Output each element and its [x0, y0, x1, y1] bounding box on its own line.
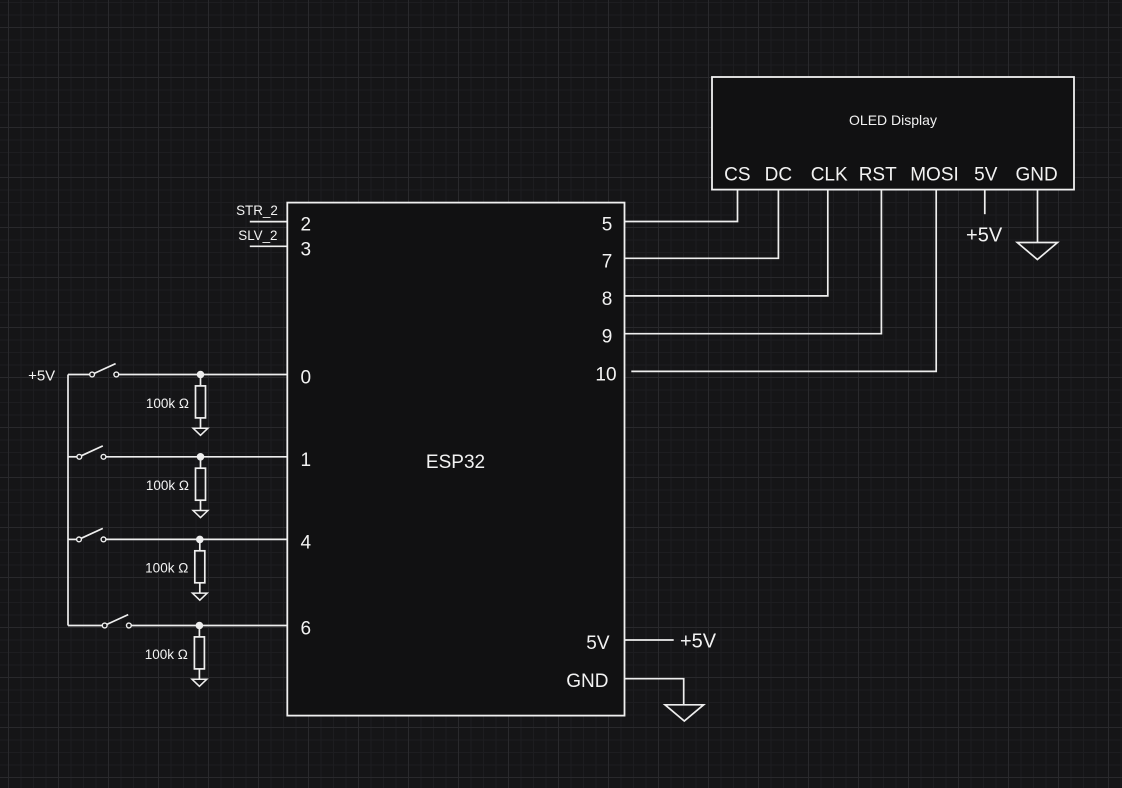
svg-text:100k Ω: 100k Ω — [145, 647, 188, 662]
svg-text:RST: RST — [859, 165, 897, 186]
resistor R2 100k — [196, 457, 206, 511]
wire DC: OLED DC to ESP32 pin 7 — [625, 190, 779, 259]
svg-text:OLED Display: OLED Display — [849, 112, 937, 128]
OLED Display box U1 — [712, 77, 1074, 190]
svg-text:5: 5 — [602, 215, 613, 236]
wire rail to switch SW1 — [68, 374, 90, 376]
ESP32 box U2 — [287, 203, 624, 716]
svg-text:10: 10 — [595, 364, 616, 385]
svg-text:ESP32: ESP32 — [426, 452, 485, 473]
wire SW3 to ESP32 pin 4 — [106, 538, 287, 540]
svg-text:2: 2 — [301, 215, 312, 236]
svg-text:6: 6 — [301, 619, 312, 640]
wire OLED 5V stub — [984, 190, 986, 215]
wire SW4 to ESP32 pin 6 — [131, 625, 287, 627]
svg-text:1: 1 — [301, 450, 312, 471]
wire rail to switch SW2 — [68, 456, 77, 458]
svg-text:4: 4 — [301, 532, 312, 553]
ground symbol (ESP32) — [665, 705, 704, 721]
svg-text:+5V: +5V — [28, 367, 55, 384]
switch SW3 — [77, 528, 106, 541]
svg-text:7: 7 — [602, 251, 613, 272]
svg-text:GND: GND — [1015, 165, 1057, 186]
switch SW2 — [77, 446, 106, 459]
wire MOSI: OLED MOSI to ESP32 pin 10 — [631, 190, 936, 372]
resistor R1 100k — [196, 375, 206, 429]
ground symbol R1 — [193, 428, 208, 435]
svg-text:5V: 5V — [586, 633, 610, 654]
wire SW1 to ESP32 pin 0 — [119, 374, 288, 376]
ground symbol R4 — [192, 679, 207, 686]
svg-text:GND: GND — [566, 671, 608, 692]
svg-text:DC: DC — [765, 165, 792, 186]
wire CLK: OLED CLK to ESP32 pin 8 — [625, 190, 828, 296]
ground symbol R2 — [193, 511, 208, 518]
wire STR_2 to pin 2 — [250, 221, 287, 223]
wire ESP32 5V to +5V — [625, 639, 674, 641]
wire CS: OLED CS to ESP32 pin 5 — [625, 190, 738, 222]
svg-text:CLK: CLK — [811, 165, 848, 186]
junction node pin 6 — [196, 622, 204, 630]
svg-text:SLV_2: SLV_2 — [238, 228, 277, 243]
wire ESP32 GND — [625, 679, 684, 705]
svg-text:+5V: +5V — [966, 225, 1003, 247]
svg-text:5V: 5V — [974, 165, 998, 186]
svg-text:+5V: +5V — [680, 631, 717, 653]
svg-text:3: 3 — [301, 239, 312, 260]
svg-text:0: 0 — [301, 368, 312, 389]
svg-text:CS: CS — [724, 165, 750, 186]
wire rail to switch SW4 — [68, 625, 102, 627]
resistor R4 100k — [194, 626, 204, 680]
junction node pin 4 — [196, 536, 204, 544]
switch SW1 — [90, 364, 119, 377]
junction node pin 1 — [197, 453, 205, 461]
wire +5V rail vertical — [67, 375, 69, 626]
svg-text:MOSI: MOSI — [910, 165, 959, 186]
ground symbol R3 — [192, 593, 207, 600]
svg-text:100k Ω: 100k Ω — [146, 478, 189, 493]
svg-text:8: 8 — [602, 289, 613, 310]
wire SLV_2 to pin 3 — [250, 245, 287, 247]
junction node pin 0 — [197, 371, 205, 379]
svg-text:9: 9 — [602, 327, 613, 348]
wire OLED GND stub — [1037, 190, 1039, 243]
wire SW2 to ESP32 pin 1 — [106, 456, 287, 458]
svg-text:100k Ω: 100k Ω — [145, 561, 188, 576]
svg-text:100k Ω: 100k Ω — [146, 396, 189, 411]
switch SW4 — [102, 615, 131, 628]
wire RST: OLED RST to ESP32 pin 9 — [625, 190, 882, 334]
resistor R3 100k — [195, 539, 205, 593]
svg-text:STR_2: STR_2 — [236, 203, 278, 218]
wire rail to switch SW3 — [68, 538, 77, 540]
ground symbol (OLED) — [1017, 243, 1057, 260]
